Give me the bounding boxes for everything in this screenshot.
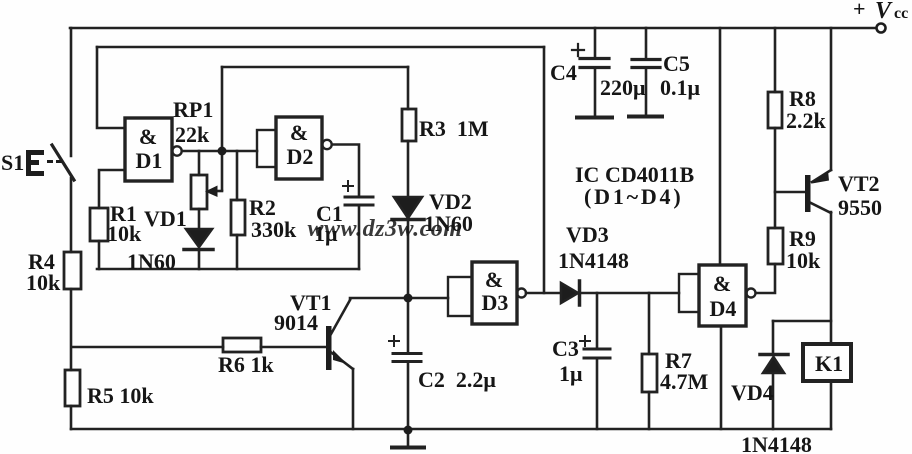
svg-text:R3 1M: R3 1M — [419, 116, 489, 141]
svg-text:&: & — [713, 271, 731, 296]
svg-text:R6 1k: R6 1k — [218, 352, 274, 377]
svg-text:0.1μ: 0.1μ — [660, 75, 701, 100]
svg-text:330k: 330k — [251, 217, 297, 242]
svg-text:C5: C5 — [663, 51, 690, 76]
svg-text:10k: 10k — [786, 248, 821, 273]
svg-text:1μ: 1μ — [559, 361, 583, 386]
svg-text:VD3: VD3 — [566, 222, 609, 247]
svg-text:R5 10k: R5 10k — [87, 383, 154, 408]
svg-text:C2 2.2μ: C2 2.2μ — [418, 367, 496, 392]
svg-text:220μ: 220μ — [600, 75, 646, 100]
svg-text:&: & — [139, 124, 157, 149]
svg-text:RP1: RP1 — [173, 97, 213, 122]
svg-text:1N60: 1N60 — [424, 211, 473, 236]
svg-text:D4: D4 — [710, 296, 737, 321]
svg-text:C4: C4 — [550, 60, 577, 85]
svg-text:1N4148: 1N4148 — [741, 432, 812, 454]
svg-text:10k: 10k — [107, 221, 142, 246]
svg-text:9550: 9550 — [838, 195, 882, 220]
svg-text:D3: D3 — [482, 290, 509, 315]
svg-text:S1: S1 — [1, 150, 24, 175]
svg-text:1μ: 1μ — [314, 221, 338, 246]
svg-text:D1: D1 — [136, 148, 163, 173]
svg-text:C3: C3 — [552, 336, 579, 361]
svg-text:1N60: 1N60 — [127, 249, 176, 274]
svg-text:VD4: VD4 — [731, 380, 774, 405]
svg-text:&: & — [290, 120, 308, 145]
svg-text:1N4148: 1N4148 — [558, 248, 629, 273]
svg-text:&: & — [485, 267, 503, 292]
svg-text:10k: 10k — [26, 270, 61, 295]
svg-text:2.2k: 2.2k — [786, 108, 827, 133]
svg-text:cc: cc — [894, 5, 908, 22]
svg-text:VD1: VD1 — [144, 206, 187, 231]
svg-text:9014: 9014 — [274, 310, 318, 335]
svg-text:(D1~D4): (D1~D4) — [584, 184, 683, 209]
svg-text:V: V — [875, 0, 893, 24]
svg-text:+: + — [853, 0, 866, 21]
svg-text:K1: K1 — [815, 351, 843, 376]
svg-text:VT2: VT2 — [838, 171, 880, 196]
svg-text:4.7M: 4.7M — [660, 369, 709, 394]
svg-text:D2: D2 — [287, 144, 314, 169]
svg-text:22k: 22k — [175, 122, 210, 147]
